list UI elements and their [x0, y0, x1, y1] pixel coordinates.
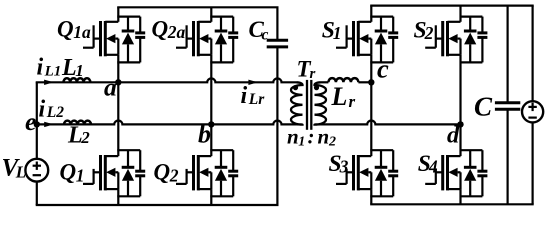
transistor Q1a: [57, 7, 118, 62]
svg-text:i: i: [37, 55, 44, 81]
svg-text:Q: Q: [60, 160, 77, 185]
current arrow iLr: [241, 80, 266, 110]
svg-text:Q: Q: [154, 160, 171, 185]
voltage source (battery) on HV side: [522, 6, 543, 205]
wire Q1a cell bars: [117, 17, 140, 63]
wire node c vertical (S1 source to S3 drain): [370, 62, 372, 150]
svg-text:L: L: [15, 163, 26, 182]
wire bottom-left rail: [36, 204, 279, 206]
transistor S3: [329, 150, 372, 204]
wire Lr to node c: [358, 81, 371, 83]
inductor L1: [61, 55, 90, 82]
svg-text:2: 2: [80, 128, 90, 147]
wire Q2 cell bars: [210, 150, 233, 196]
svg-text:C: C: [474, 91, 493, 121]
snubber capacitor of Q2a: [228, 17, 238, 63]
body diode of S1: [375, 17, 388, 63]
svg-text::: :: [308, 124, 315, 148]
svg-text:L2: L2: [46, 104, 64, 121]
svg-text:1a: 1a: [73, 22, 91, 42]
svg-text:e: e: [25, 107, 36, 136]
transformer Tr: [291, 57, 326, 130]
svg-text:c: c: [262, 26, 269, 43]
wire S4 cell bars: [460, 150, 483, 196]
snubber capacitor of Q1a: [135, 17, 145, 63]
svg-text:Lr: Lr: [248, 91, 265, 108]
transistor Q2a: [152, 7, 212, 62]
node a row wire with hops over b and Cc verticals: [36, 78, 297, 82]
svg-text:4: 4: [428, 156, 438, 176]
current arrow iL1: [37, 55, 62, 85]
body diode of Q1: [122, 150, 135, 196]
svg-text:2a: 2a: [167, 22, 186, 42]
svg-text:n: n: [318, 124, 330, 148]
snubber capacitor of Q2: [228, 150, 238, 196]
wire secondary top lead: [321, 81, 329, 83]
svg-text:2: 2: [169, 165, 179, 185]
svg-text:c: c: [377, 53, 389, 83]
body diode of S2: [464, 17, 477, 63]
svg-text:1: 1: [333, 23, 342, 43]
transistor Q1: [60, 150, 119, 205]
wire Q1 cell bars: [117, 150, 140, 196]
wire S2 cell bars: [460, 17, 483, 63]
current arrow iL2: [39, 97, 65, 128]
wire bottom-right rail: [370, 203, 534, 205]
transistor S1: [322, 6, 372, 63]
wire secondary bottom lead with hop over c vertical: [321, 121, 461, 125]
svg-text:a: a: [104, 73, 117, 102]
svg-text:r: r: [349, 92, 356, 111]
svg-text:1: 1: [298, 134, 305, 149]
transistor S4: [418, 150, 461, 204]
body diode of Q2a: [215, 17, 228, 63]
wire node d vertical (S2 source to S4 drain): [459, 62, 461, 150]
node b: [198, 120, 215, 149]
svg-text:2: 2: [424, 23, 434, 43]
wire node b vertical (Q2a source to Q2 drain): [210, 62, 212, 150]
node a: [104, 73, 122, 102]
svg-text:Q: Q: [152, 16, 169, 41]
snubber capacitor of S4: [477, 150, 487, 196]
svg-text:r: r: [310, 66, 316, 82]
snubber capacitor of Q1: [135, 150, 145, 196]
wire S1 cell bars: [370, 17, 393, 63]
svg-text:L1: L1: [44, 63, 62, 79]
capacitor Cc: [249, 7, 289, 205]
node c: [368, 53, 389, 85]
wire S3 cell bars: [370, 150, 393, 196]
wire top-left clamp rail: [117, 6, 278, 8]
transistor S2: [414, 6, 461, 63]
svg-text:i: i: [241, 83, 248, 109]
inductor Lr: [328, 78, 358, 111]
svg-text:L: L: [331, 82, 348, 111]
svg-text:d: d: [447, 121, 460, 148]
snubber capacitor of S3: [388, 150, 398, 196]
body diode of Q1a: [122, 17, 135, 63]
voltage source VL: [2, 154, 49, 181]
svg-text:1: 1: [76, 165, 85, 185]
body diode of S4: [464, 150, 477, 196]
node e: [25, 107, 40, 136]
wire node a vertical (Q1a source to Q1 drain): [117, 62, 119, 150]
body diode of S3: [375, 150, 388, 196]
inductor L2: [64, 121, 91, 149]
svg-text:Q: Q: [57, 16, 74, 41]
node e row wire with hops over a-d and Cc verticals: [37, 120, 297, 124]
svg-text:n: n: [287, 124, 299, 148]
wire Q2a cell bars: [210, 17, 233, 63]
capacitor C: [474, 6, 520, 205]
svg-text:2: 2: [328, 134, 336, 149]
svg-text:i: i: [39, 97, 46, 123]
wire top-right rail: [370, 4, 534, 6]
snubber capacitor of S1: [388, 17, 398, 63]
body diode of Q2: [215, 150, 228, 196]
transistor Q2: [154, 150, 212, 205]
svg-text:3: 3: [339, 156, 349, 176]
transformer turns ratio label n1:n2: [287, 124, 336, 149]
svg-text:1: 1: [75, 61, 84, 80]
snubber capacitor of S2: [477, 17, 487, 63]
node d: [447, 121, 464, 148]
svg-text:b: b: [198, 120, 211, 149]
wire left column (row-a corner down through e to VL and rail): [36, 82, 38, 205]
